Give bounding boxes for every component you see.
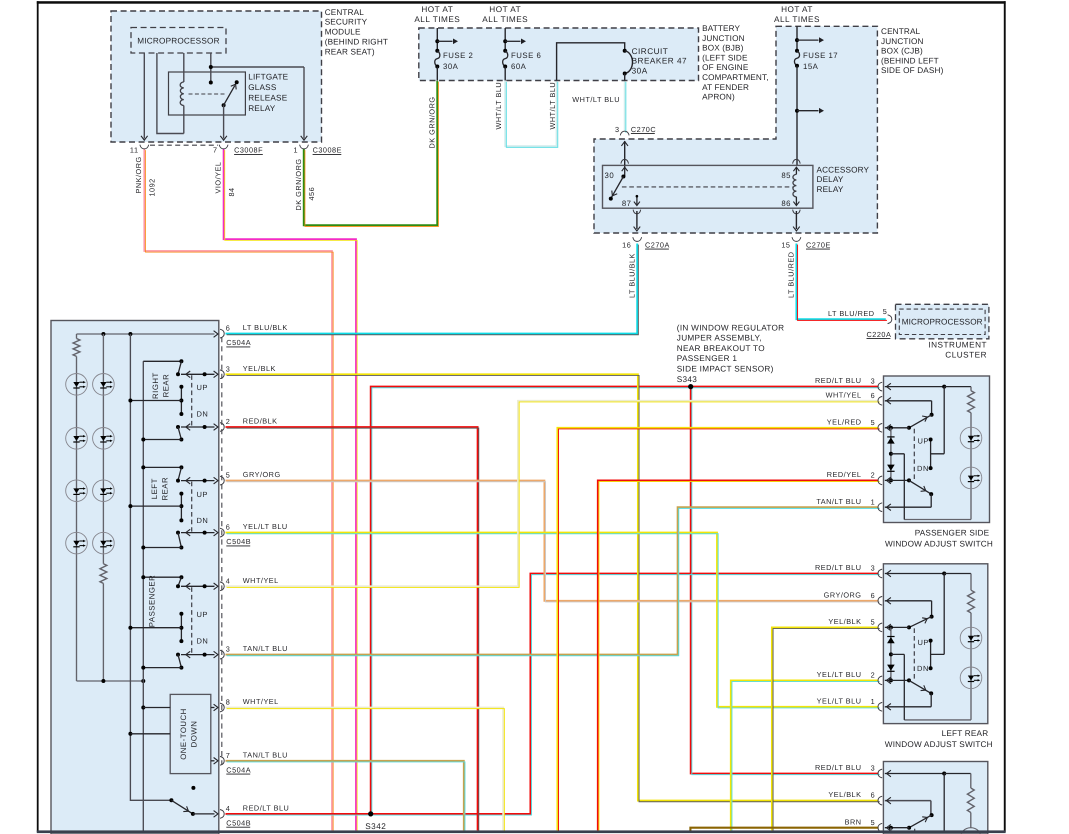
svg-text:C3008E: C3008E [313,146,342,155]
connector C220A cup at instrument cluster [888,315,892,324]
circuit breaker CB47 30A [623,49,627,53]
svg-text:WHT/LT BLU: WHT/LT BLU [572,95,620,104]
module instrument cluster box [896,304,989,339]
svg-text:DN: DN [197,637,209,646]
svg-text:30: 30 [605,171,615,180]
svg-text:CENTRAL: CENTRAL [881,27,921,36]
LED indicator pair row y=438.3 [66,428,88,450]
svg-text:GLASS: GLASS [248,83,277,92]
svg-text:FUSE 17: FUSE 17 [803,51,838,60]
svg-text:C504A: C504A [226,338,251,347]
node one-touch open contact [191,786,195,790]
svg-text:UP: UP [917,437,928,446]
wire VIO/YEL 84 from CSM pin 7 [224,149,358,832]
svg-text:WHT/YEL: WHT/YEL [243,697,279,706]
svg-text:CLUSTER: CLUSTER [945,351,987,360]
svg-text:WINDOW ADJUST SWITCH: WINDOW ADJUST SWITCH [885,539,993,548]
connector right rear pin 6 YEL/BLK cup [878,796,882,805]
connector C3008F pin 7 cup [219,145,228,149]
svg-text:5: 5 [883,307,888,316]
LED column 2 conductor [102,334,104,681]
svg-text:C270A: C270A [645,240,670,249]
wire RED/LT BLU feed S342/S343 to window switches [226,387,880,815]
LED indicator pair row y=384.3 [66,374,88,396]
svg-text:HOT AT: HOT AT [781,5,813,14]
connector master pin 3 YEL/BLK cup [220,370,224,379]
wire microprocessor to relay coil [183,53,185,82]
svg-text:YEL/LT BLU: YEL/LT BLU [817,670,862,679]
svg-text:ALL TIMES: ALL TIMES [482,15,528,24]
svg-text:3: 3 [871,564,876,573]
module left rear window adjust switch box [883,564,987,724]
wire WHT/YEL master pin 8 [226,708,505,832]
svg-text:MODULE: MODULE [325,28,361,37]
svg-text:30A: 30A [443,62,459,71]
svg-text:WHT/LT BLU: WHT/LT BLU [548,82,557,130]
svg-text:C270E: C270E [806,240,831,249]
svg-text:YEL/BLK: YEL/BLK [828,617,861,626]
svg-text:UP: UP [197,610,208,619]
connector C270C cup [620,131,629,135]
node fuse 17 branch [795,109,799,113]
connector passenger pin 1 TAN/LT BLU cup [878,503,882,512]
LED left rear window adjust lower [960,667,982,689]
svg-text:TAN/LT BLU: TAN/LT BLU [816,497,861,506]
svg-text:87: 87 [622,199,632,208]
module CJB box (Central Junction Box) [594,26,877,233]
wire LT BLU/BLK C270A to master switch pin 6 [226,244,639,335]
connector C3008F dashed link [150,144,218,146]
fuse F2 30A [436,28,438,51]
svg-text:6: 6 [871,391,876,400]
svg-text:LEFT: LEFT [150,478,159,499]
svg-text:JUMPER ASSEMBLY,: JUMPER ASSEMBLY, [677,334,762,343]
svg-text:2: 2 [871,671,876,680]
svg-text:INSTRUMENT: INSTRUMENT [928,340,987,349]
svg-text:ALL TIMES: ALL TIMES [414,15,460,24]
svg-text:MICROPROCESSOR: MICROPROCESSOR [137,36,219,45]
svg-text:ALL TIMES: ALL TIMES [774,15,820,24]
svg-text:2: 2 [871,471,876,480]
svg-text:DK GRN/ORG: DK GRN/ORG [427,96,436,148]
svg-text:HOT AT: HOT AT [489,5,521,14]
wire GRY/ORG master pin 5 to left rear pin 6 [226,481,880,602]
svg-text:DN: DN [917,664,929,673]
LED left rear window adjust upper [960,627,982,649]
svg-text:86: 86 [781,199,791,208]
wire PNK/ORG 1092 from CSM pin 11 [144,149,333,832]
wire WHT/LT BLU fuse 6 loop [505,81,558,148]
connector master pin 6 LT BLU/BLK cup [220,329,224,338]
svg-text:6: 6 [226,523,231,532]
master switch LED supply rail [77,334,215,339]
switch section PASSENGER [143,576,181,578]
LED bottom rail [77,680,144,682]
riser bus 1 (switch commons) [130,334,171,800]
relay switch liftgate [222,103,226,107]
svg-text:APRON): APRON) [702,93,735,102]
one-touch output pin 7 [211,760,215,762]
svg-text:PASSENGER SIDE: PASSENGER SIDE [915,529,990,538]
svg-text:BOX (BJB): BOX (BJB) [702,44,744,53]
svg-text:REAR SEAT): REAR SEAT) [325,47,375,56]
wire riser1 to one-touch [130,733,170,735]
switch passenger side window adjust internals [885,386,944,388]
connector C270E cup [792,237,801,241]
svg-text:5: 5 [871,618,876,627]
svg-text:BOX (CJB): BOX (CJB) [881,47,923,56]
svg-text:5: 5 [226,471,231,480]
connector master pin 6 YEL/LT BLU cup [220,528,224,537]
svg-text:1092: 1092 [148,178,157,196]
svg-text:1: 1 [871,697,876,706]
connector master pin 2 RED/BLK cup [220,423,224,432]
module CSM box (Central Security Module) [111,11,322,142]
svg-text:84: 84 [227,187,236,196]
page frame left border [37,1,39,832]
relay switch arm 30-87 [611,177,624,199]
connector passenger pin 5 YEL/RED cup [878,423,882,432]
svg-text:FUSE 6: FUSE 6 [511,51,541,60]
fuse F6 60A [504,28,506,51]
svg-text:SECURITY: SECURITY [325,18,368,27]
svg-text:LIFTGATE: LIFTGATE [248,73,288,82]
svg-text:CENTRAL: CENTRAL [325,8,365,17]
svg-text:1: 1 [871,497,876,506]
svg-text:(BEHIND RIGHT: (BEHIND RIGHT [325,38,388,47]
svg-text:3: 3 [226,364,231,373]
master one-touch switch [169,798,173,802]
relay link dashed 85 coil [622,186,793,188]
one-touch down module box [170,694,211,773]
svg-text:4: 4 [226,576,231,585]
switch right rear window adjust internals (clipped) [885,773,944,775]
border CSM microprocessor dashed box [131,28,226,54]
svg-text:PASSENGER 1: PASSENGER 1 [677,354,738,363]
wire TAN/LT BLU master pin 7 [226,761,465,832]
svg-text:LT BLU/BLK: LT BLU/BLK [627,253,636,298]
svg-text:C220A: C220A [867,330,892,339]
connector master pin 3 TAN/LT BLU cup [220,650,224,659]
svg-text:456: 456 [307,187,316,201]
LED passenger side window adjust lower [960,467,982,489]
connector left rear pin 6 GRY/ORG cup [878,596,882,605]
svg-text:WINDOW ADJUST SWITCH: WINDOW ADJUST SWITCH [885,740,993,749]
svg-text:(IN WINDOW REGULATOR: (IN WINDOW REGULATOR [677,323,785,332]
module master window switch box [51,321,219,834]
svg-text:RELAY: RELAY [817,185,844,194]
LED passenger side window adjust upper [960,427,982,449]
svg-text:PASSENGER: PASSENGER [148,575,157,627]
wire WHT/LT BLU breaker 47 to C270C [625,81,626,133]
svg-text:ONE-TOUCH: ONE-TOUCH [179,708,188,760]
wire BRN right rear pin 5 [690,828,878,831]
svg-text:YEL/BLK: YEL/BLK [243,364,276,373]
connector master pin 4 RED/LT BLU cup [220,810,224,819]
relay coil link dashed [189,93,225,95]
svg-text:3: 3 [226,645,231,654]
LED indicator pair row y=543.1 [66,532,88,554]
wire microprocessor to relay coil return [157,53,184,134]
wire TAN/LT BLU master pin 3 to passenger pin 1 [226,507,880,656]
svg-text:6: 6 [226,324,231,333]
wire RED/YEL passenger pin 2 [598,480,880,831]
svg-text:30A: 30A [632,67,648,76]
connector C270A cup [633,237,642,241]
svg-text:REAR: REAR [162,374,171,398]
one-touch output pin 8 [211,707,215,709]
connector passenger pin 2 RED/YEL cup [878,476,882,485]
connector master pin 4 WHT/YEL cup [220,582,224,591]
connector master pin 7 TAN/LT BLU cup [220,756,224,765]
svg-text:16: 16 [622,240,631,249]
module BJB box (Battery Junction Box) [419,28,699,81]
switch left rear window adjust internals [885,573,944,575]
svg-text:WHT/YEL: WHT/YEL [243,576,279,585]
svg-text:LT BLU/BLK: LT BLU/BLK [243,323,288,332]
svg-text:RED/BLK: RED/BLK [243,417,278,426]
svg-text:11: 11 [130,146,139,155]
svg-text:COMPARTMENT,: COMPARTMENT, [702,73,769,82]
svg-text:LT BLU/RED: LT BLU/RED [787,252,796,299]
svg-text:FUSE 2: FUSE 2 [443,51,473,60]
page frame top border [37,1,1006,4]
svg-text:DN: DN [197,410,209,419]
svg-text:LT BLU/RED: LT BLU/RED [828,309,875,318]
connector left rear pin 5 YEL/BLK cup [878,623,882,632]
wire DK GRN/ORG 456 from CSM pin 1 to fuse 2 [304,81,439,227]
riser bus 2 (switch contacts) [142,361,144,831]
connector left rear pin 1 YEL/LT BLU cup [878,702,882,711]
svg-text:PNK/ORG: PNK/ORG [134,156,143,193]
svg-text:YEL/RED: YEL/RED [827,417,862,426]
svg-text:CIRCUIT: CIRCUIT [632,47,669,56]
page frame bottom border [37,830,1006,833]
border CSM dashed outline [111,11,322,142]
splice S342 [368,811,373,816]
svg-text:GRY/ORG: GRY/ORG [243,470,281,479]
svg-text:15: 15 [781,240,790,249]
svg-text:C270C: C270C [631,125,656,134]
svg-text:RED/LT BLU: RED/LT BLU [243,804,289,813]
svg-text:YEL/LT BLU: YEL/LT BLU [243,522,288,531]
svg-text:ACCESSORY: ACCESSORY [817,165,870,174]
wire microprocessor to pin 11 [143,53,145,139]
svg-text:RED/LT BLU: RED/LT BLU [815,563,862,572]
svg-text:WHT/YEL: WHT/YEL [826,390,862,399]
svg-text:C504A: C504A [226,765,251,774]
svg-text:DOWN: DOWN [190,721,199,748]
svg-text:UP: UP [917,638,928,647]
connector C3008F pin 11 cup [140,145,149,149]
svg-text:YEL/BLK: YEL/BLK [828,790,861,799]
svg-text:5: 5 [871,418,876,427]
wire WHT/LT BLU riser to circuit breaker [557,43,625,81]
svg-text:6: 6 [871,791,876,800]
svg-text:SIDE IMPACT SENSOR): SIDE IMPACT SENSOR) [677,365,774,374]
svg-text:BRN: BRN [845,817,862,826]
connector master pin 8 WHT/YEL cup [220,703,224,712]
svg-text:5: 5 [871,818,876,827]
svg-text:YEL/LT BLU: YEL/LT BLU [817,696,862,705]
svg-text:(BEHIND LEFT: (BEHIND LEFT [881,56,939,65]
relay coil 85-86 [793,159,801,163]
wire YEL/LT BLU master pin 6 to left rear pin 1 [226,533,880,708]
resistor R1 master column 1 [73,339,80,357]
svg-text:DELAY: DELAY [817,175,844,184]
relay pin 86 lead to C270E [795,211,797,229]
svg-text:MICROPROCESSOR: MICROPROCESSOR [902,318,983,327]
svg-text:3: 3 [871,764,876,773]
page frame right border [1004,1,1006,832]
svg-text:VIO/YEL: VIO/YEL [214,162,223,194]
svg-text:RELEASE: RELEASE [248,94,288,103]
connector master pin 5 GRY/ORG cup [220,476,224,485]
switch section LEFT REAR [143,466,181,468]
svg-text:HOT AT: HOT AT [421,5,453,14]
svg-text:85: 85 [781,171,791,180]
wire C270C to relay pin 30 [624,141,626,165]
svg-text:TAN/LT BLU: TAN/LT BLU [243,644,288,653]
svg-text:60A: 60A [511,62,527,71]
wire microprocessor to relay contact and pin 1 [211,53,304,139]
relay pin 87 lead [636,196,638,205]
svg-text:RELAY: RELAY [248,104,276,113]
svg-text:1: 1 [293,146,298,155]
connector right rear pin 5 BRN cup [878,823,882,832]
border CJB dashed outline [594,26,877,233]
svg-text:LEFT REAR: LEFT REAR [942,729,989,738]
svg-text:(LEFT SIDE: (LEFT SIDE [702,53,748,62]
wire YEL/RED passenger pin 5 [557,428,879,832]
LED indicator pair row y=490.7 [66,480,88,502]
svg-text:BATTERY: BATTERY [702,24,740,33]
resistor R2 master column 2 [100,564,107,584]
connector left rear pin 2 YEL/LT BLU cup [878,676,882,685]
svg-text:AT FENDER: AT FENDER [702,83,749,92]
svg-text:UP: UP [197,490,208,499]
module right rear window adjust switch box [883,762,987,834]
svg-text:C504B: C504B [226,818,251,827]
svg-text:S343: S343 [677,375,697,384]
svg-text:SIDE OF DASH): SIDE OF DASH) [881,66,944,75]
connector left rear pin 3 RED/LT BLU cup [878,569,882,578]
wire YEL/BLK left rear pin 5 [772,627,880,831]
svg-text:4: 4 [226,804,231,813]
LED column 1 conductor [76,356,78,681]
relay pin 30 contact [621,175,625,179]
node relay fixed contact [209,81,213,85]
svg-text:3: 3 [615,125,620,134]
svg-text:2: 2 [226,417,231,426]
svg-text:JUNCTION: JUNCTION [881,37,924,46]
border instrument cluster inner dashed box [899,309,985,334]
svg-text:RED/LT BLU: RED/LT BLU [815,376,862,385]
svg-text:DK GRN/ORG: DK GRN/ORG [294,158,303,210]
svg-text:DN: DN [197,516,209,525]
svg-text:GRY/ORG: GRY/ORG [824,590,862,599]
svg-text:RED/YEL: RED/YEL [827,470,862,479]
accessory delay relay box [603,165,813,208]
svg-text:7: 7 [213,146,218,155]
wire YEL/LT BLU left rear pin 2 [731,680,880,831]
connector passenger pin 6 WHT/YEL cup [878,396,882,405]
svg-text:S342: S342 [365,822,386,831]
svg-text:UP: UP [197,383,208,392]
splice S343 [688,384,693,389]
svg-text:JUNCTION: JUNCTION [702,34,745,43]
connector passenger pin 3 RED/LT BLU cup [878,382,882,391]
riser bus dots [128,732,132,736]
wire RED/BLK master pin 2 [226,427,479,832]
switch section RIGHT REAR [143,360,181,362]
wire WHT/YEL master pin 4 to passenger pin 6 [226,401,880,588]
svg-text:8: 8 [226,698,231,707]
wire riser2 to one-touch [143,707,170,709]
svg-text:WHT/LT BLU: WHT/LT BLU [494,82,503,130]
svg-text:15A: 15A [803,62,819,71]
border BJB dashed outline [419,28,699,81]
wire LT BLU/RED C270E to instrument cluster [796,244,887,321]
svg-text:C3008F: C3008F [234,146,263,155]
svg-text:7: 7 [226,751,231,760]
connector right rear pin 3 RED/LT BLU cup [878,769,882,778]
svg-text:OF ENGINE: OF ENGINE [702,63,749,72]
module passenger side window adjust switch box [884,376,990,523]
svg-text:REAR: REAR [161,477,170,501]
connector C504 dashed line at master switch [221,337,223,765]
relay coil liftgate [180,82,184,106]
svg-text:RED/LT BLU: RED/LT BLU [815,763,862,772]
svg-text:3: 3 [871,377,876,386]
svg-text:6: 6 [871,591,876,600]
svg-text:RIGHT: RIGHT [151,372,160,399]
svg-text:DN: DN [917,464,929,473]
liftgate glass release relay box [169,72,246,115]
wire YEL/BLK master pin 3 to right rear pin 6 [226,374,880,801]
connector C3008E pin 1 cup [300,145,309,149]
svg-text:TAN/LT BLU: TAN/LT BLU [243,750,288,759]
svg-text:C504B: C504B [226,537,251,546]
svg-text:BREAKER 47: BREAKER 47 [632,57,688,66]
svg-text:NEAR BREAKOUT TO: NEAR BREAKOUT TO [677,344,765,353]
fuse F17 15A [796,26,798,51]
